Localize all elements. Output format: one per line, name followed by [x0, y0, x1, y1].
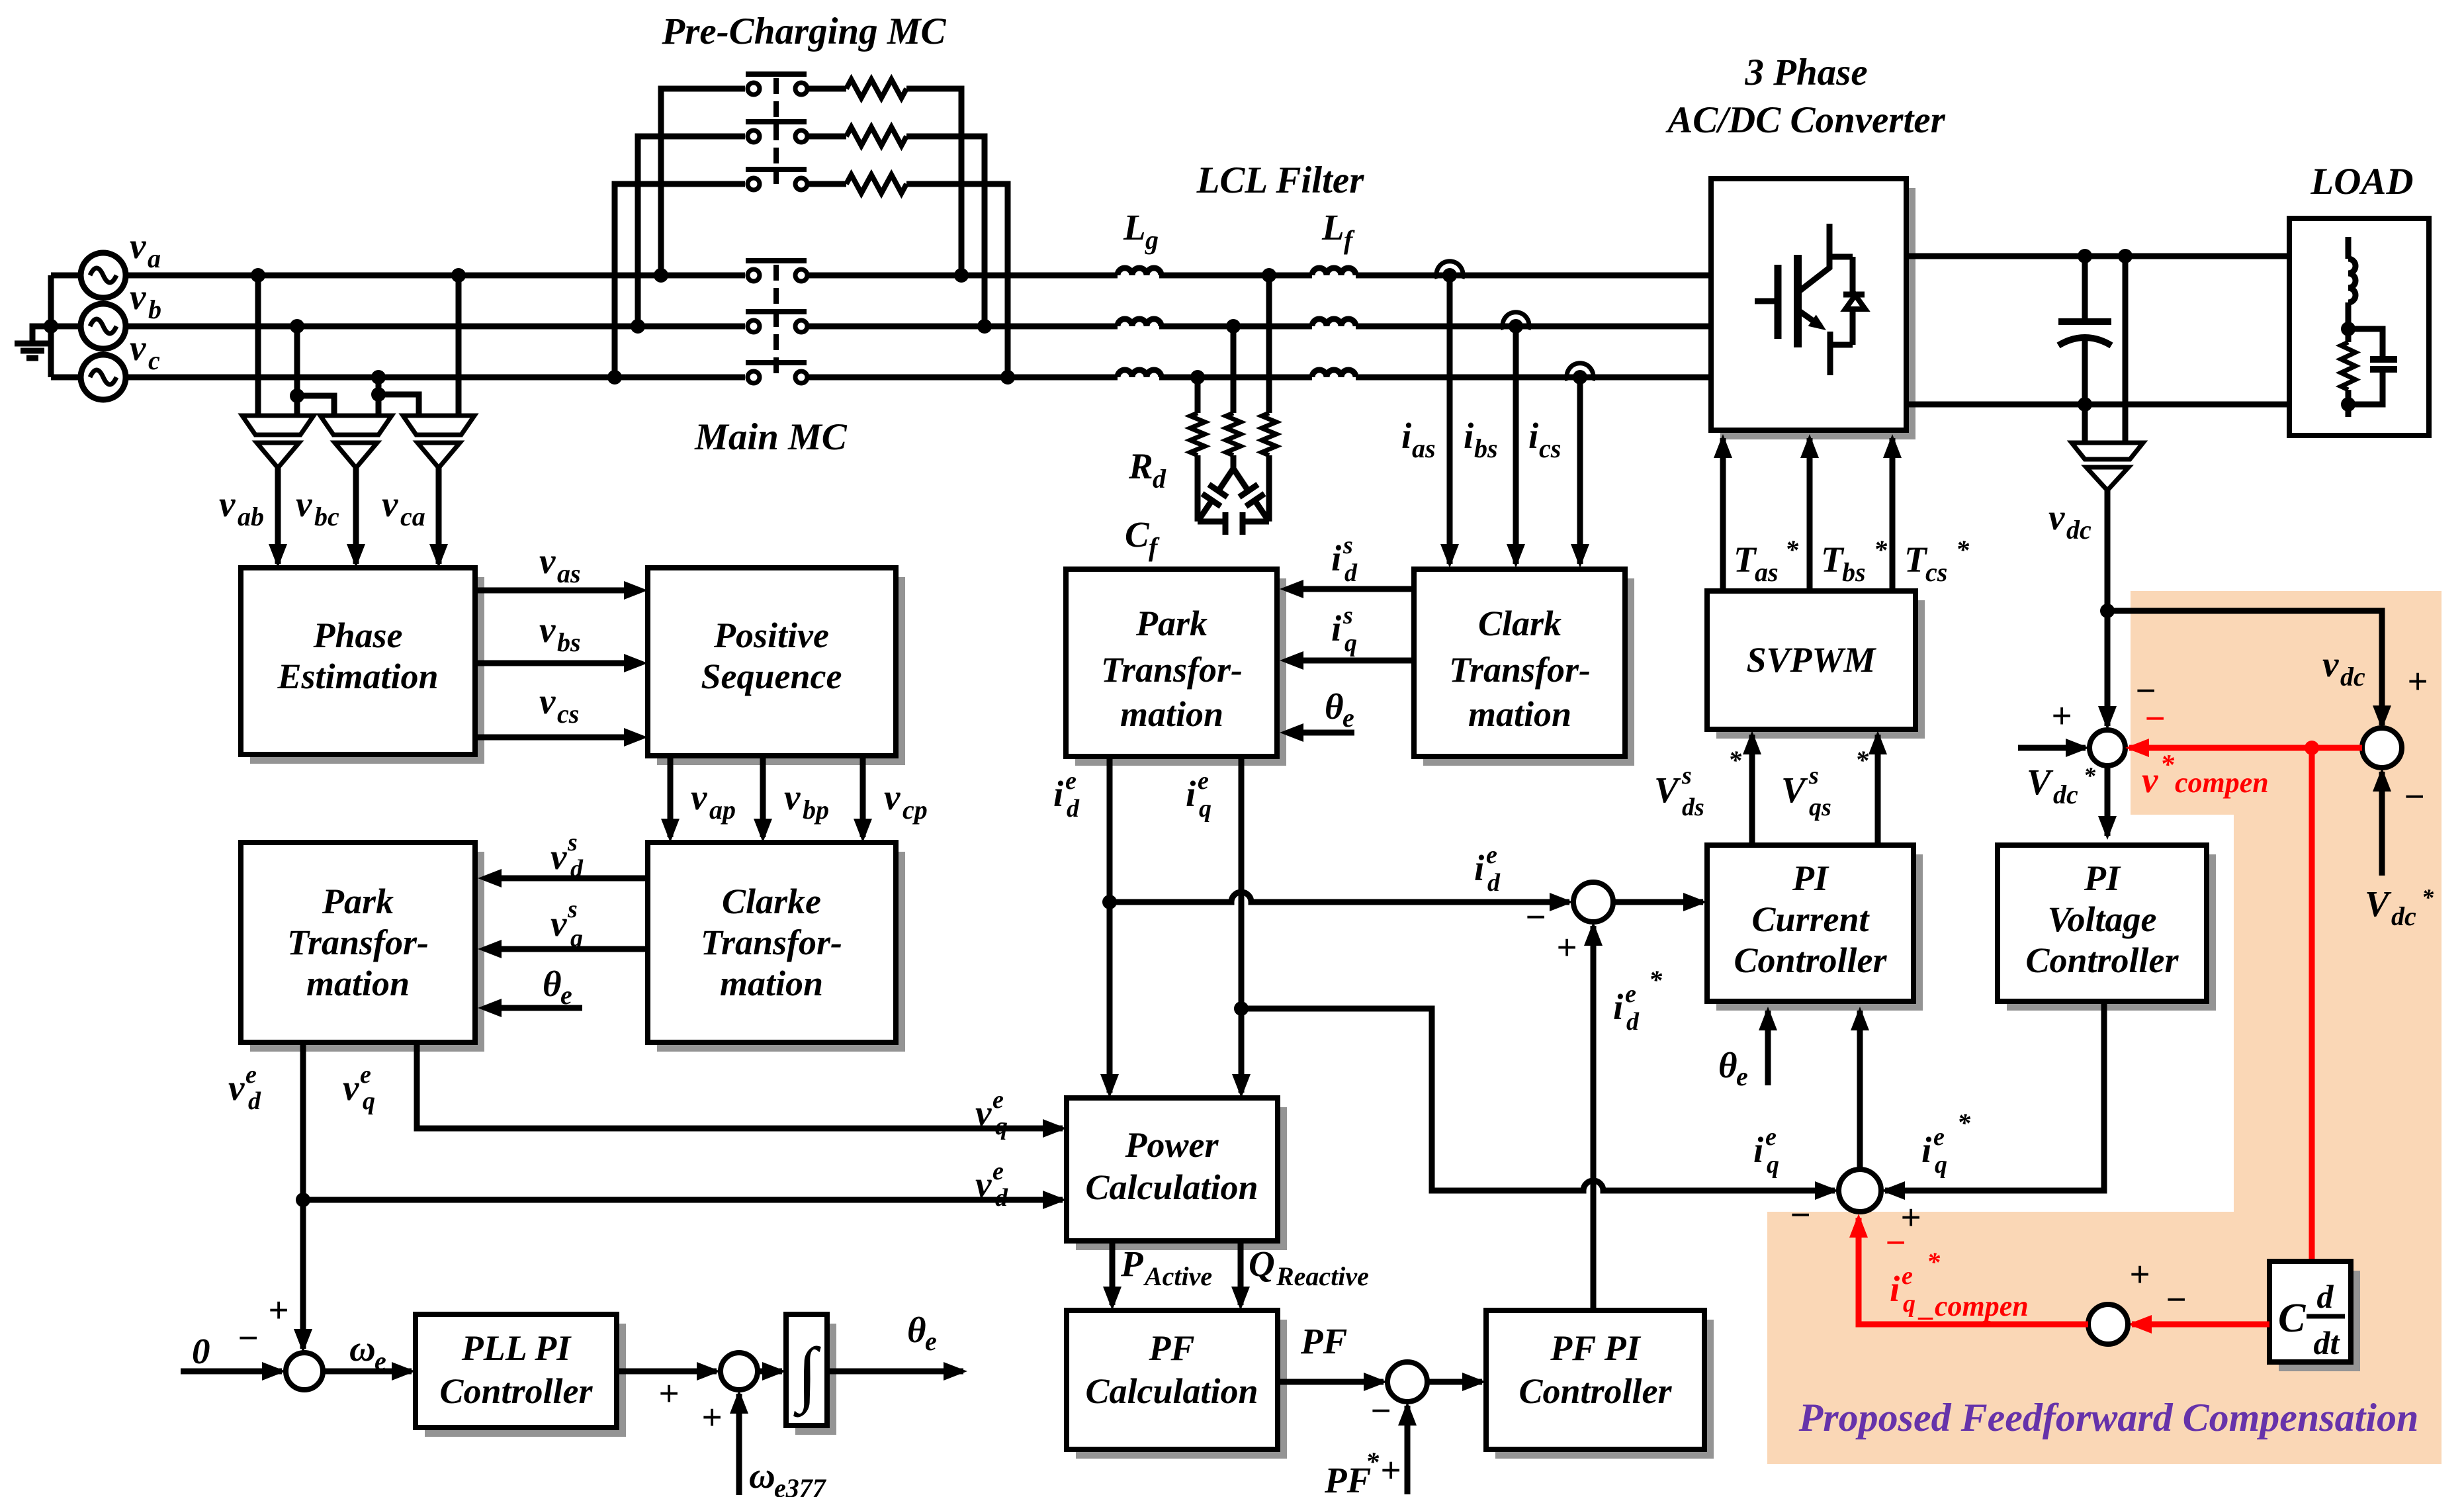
svg-text:v: v [884, 777, 901, 817]
svg-text:v: v [2142, 760, 2158, 800]
svg-text:Controller: Controller [1518, 1371, 1672, 1411]
wire ied ref from PF PI [1591, 926, 1597, 1310]
node: vc sense tap [371, 370, 386, 385]
svg-text:as: as [557, 559, 581, 588]
svg-text:θ: θ [543, 964, 562, 1004]
svg-text:i: i [1528, 416, 1539, 456]
svg-text:*: * [1728, 745, 1742, 775]
pre-charge contactor row 3 [615, 184, 745, 377]
svg-text:v: v [691, 777, 707, 817]
wire d sum to PI current [1613, 899, 1703, 905]
resistor Rd phase a [1266, 275, 1272, 413]
wire PLL PI to sum2 [617, 1369, 717, 1375]
svg-text:Main MC: Main MC [694, 416, 848, 458]
svg-text:−: − [1524, 897, 1546, 937]
AC source vb [81, 304, 126, 349]
svg-text:q: q [1344, 629, 1357, 657]
block PF Calculation [1076, 1320, 1287, 1459]
svg-text:as: as [1755, 557, 1779, 587]
load resistor [2346, 329, 2352, 342]
wire vdc to right sum [2107, 611, 2382, 725]
svg-text:+: + [1556, 927, 1577, 968]
svg-text:dc: dc [2066, 515, 2091, 545]
wire q sum to PI current [1857, 1011, 1863, 1169]
wire ied vertical [1107, 756, 1113, 1093]
svg-text:d: d [2317, 1278, 2334, 1315]
wire va to sensor1 [255, 275, 261, 416]
svg-text:i: i [1753, 1130, 1764, 1170]
voltage sensor vca [403, 416, 474, 435]
pre-charge contactor row 2 [638, 136, 745, 326]
svg-text:bs: bs [1842, 557, 1866, 587]
current sensor ibs [1503, 312, 1529, 330]
current sensor ias [1436, 261, 1463, 279]
AC source va [81, 253, 126, 298]
svg-text:θ: θ [1325, 686, 1344, 727]
svg-text:a: a [148, 244, 161, 273]
svg-text:V: V [2027, 762, 2054, 802]
block Park Transformation middle [1075, 578, 1286, 766]
svg-text:bc: bc [314, 502, 339, 531]
svg-text:bp: bp [803, 795, 829, 825]
LOAD box [2289, 218, 2429, 435]
svg-text:as: as [1412, 433, 1436, 463]
svg-text:d: d [995, 1184, 1008, 1212]
wire ieq to summing junction [1241, 1009, 1835, 1191]
wire P active [1110, 1241, 1116, 1305]
svg-text:v: v [784, 777, 801, 817]
node ieq branch [1234, 1001, 1249, 1016]
node red branch [2305, 741, 2319, 755]
svg-text:e: e [992, 1086, 1004, 1114]
svg-text:−: − [237, 1318, 259, 1358]
svg-text:e: e [1902, 1262, 1913, 1290]
svg-text:T: T [1821, 539, 1845, 580]
svg-text:Phase: Phase [313, 615, 403, 655]
svg-text:v: v [228, 1067, 245, 1108]
svg-text:*: * [1874, 535, 1888, 565]
svg-text:s: s [1342, 531, 1353, 559]
svg-text:LCL Filter: LCL Filter [1196, 159, 1365, 201]
summing junction compen [2088, 1304, 2128, 1344]
node: Rd tap phase a [1262, 268, 1276, 283]
main contactor [748, 371, 760, 383]
svg-text:AC/DC Converter: AC/DC Converter [1665, 99, 1945, 141]
block PLL PI Controller [425, 1324, 626, 1437]
svg-text:s: s [567, 829, 578, 856]
svg-text:Controller: Controller [439, 1371, 593, 1411]
inductor Lf phase c [1312, 370, 1356, 377]
block Park Transformation left [250, 852, 484, 1052]
pre-charge contactor dashed link [773, 78, 779, 184]
svg-text:PLL PI: PLL PI [461, 1328, 572, 1368]
summing junction vdc left [2090, 730, 2125, 766]
svg-text:LOAD: LOAD [2310, 161, 2413, 203]
svg-text:PF: PF [1300, 1321, 1347, 1361]
svg-text:compen: compen [2175, 766, 2269, 799]
svg-text:Estimation: Estimation [277, 657, 438, 696]
wire vca to Phase Estimation [436, 468, 442, 564]
svg-text:q: q [995, 1112, 1008, 1140]
svg-text:v: v [296, 484, 312, 524]
svg-text:e: e [1486, 841, 1497, 869]
svg-text:θ: θ [907, 1310, 926, 1350]
svg-text:+: + [2051, 696, 2072, 736]
svg-text:q: q [570, 925, 583, 952]
wire: source left bus [48, 275, 54, 377]
wire red down to C d/dt [2309, 748, 2315, 1261]
wire vdc down [2105, 490, 2111, 726]
wire vdc sum to PI voltage [2105, 766, 2111, 836]
svg-text:SVPWM: SVPWM [1746, 640, 1876, 680]
svg-text:q: q [1903, 1290, 1915, 1318]
wire vab to Phase Estimation [275, 468, 281, 564]
svg-text:L: L [1321, 207, 1344, 248]
wire PF [1278, 1379, 1384, 1385]
node ied branch [1102, 895, 1117, 909]
wire DC sense branches [2123, 256, 2129, 443]
svg-text:i: i [1890, 1269, 1900, 1309]
svg-text:Controller: Controller [2025, 940, 2179, 980]
wire we377 [736, 1394, 742, 1495]
svg-text:L: L [1123, 207, 1146, 248]
svg-text:e: e [1736, 1062, 1748, 1091]
node load R bottom [2341, 397, 2355, 412]
wire isd [1302, 586, 1414, 592]
svg-text:*: * [2084, 762, 2096, 789]
svg-text:e: e [1625, 980, 1636, 1008]
svg-text:ap: ap [709, 795, 736, 825]
inductor Lg phase a [1118, 268, 1161, 275]
svg-text:Transfor-: Transfor- [287, 923, 429, 962]
svg-text:ds: ds [1682, 794, 1704, 821]
svg-text:dc: dc [2053, 780, 2078, 809]
svg-text:*: * [1957, 1108, 1971, 1138]
svg-text:v: v [130, 226, 146, 266]
node DC+ sense [2118, 249, 2133, 263]
svg-text:ab: ab [238, 502, 264, 531]
svg-text:i: i [1464, 416, 1474, 456]
IGBT Q1 with diode [1755, 298, 1778, 304]
svg-text:+: + [268, 1290, 288, 1330]
svg-text:Calculation: Calculation [1085, 1371, 1258, 1411]
wire DC- rail [1906, 402, 2289, 408]
svg-text:v: v [343, 1067, 359, 1108]
svg-text:Sequence: Sequence [701, 657, 842, 696]
svg-text:Transfor-: Transfor- [701, 923, 842, 962]
inductor Lg phase b [1118, 319, 1161, 326]
summing junction PLL 2 [721, 1353, 758, 1390]
svg-text:Park: Park [322, 882, 394, 921]
wire vbs [475, 660, 625, 666]
wire zero input [181, 1369, 282, 1375]
svg-text:+: + [2129, 1254, 2150, 1294]
svg-text:d: d [1487, 869, 1501, 897]
svg-text:q: q [1935, 1151, 1947, 1179]
summing junction d-axis [1573, 882, 1613, 922]
svg-text:ω: ω [749, 1455, 775, 1496]
svg-text:e: e [1065, 767, 1077, 795]
wire Q reactive [1238, 1241, 1244, 1305]
wire we to PLL PI [323, 1369, 412, 1375]
svg-text:i: i [1474, 848, 1485, 888]
wire vbp [760, 756, 766, 837]
svg-text:cs: cs [1539, 433, 1561, 463]
wire ied to summing junction [1110, 892, 1569, 902]
svg-text:v: v [539, 541, 556, 581]
svg-text:−: − [2165, 1279, 2187, 1320]
wire DC+ rail [1906, 253, 2289, 259]
svg-text:i: i [1401, 416, 1412, 456]
svg-text:v: v [550, 837, 567, 877]
wire vc to sensor2 and sensor3 [376, 377, 382, 416]
svg-text:q: q [1199, 795, 1211, 823]
svg-text:e377: e377 [774, 1473, 827, 1497]
wire ieq ref from PI voltage [1885, 1001, 2104, 1191]
block Clark Transformation [1423, 578, 1634, 766]
svg-text:Controller: Controller [1734, 940, 1887, 980]
svg-text:Park: Park [1135, 604, 1208, 643]
pre-charge resistor row 2 [809, 134, 846, 140]
svg-text:e: e [1342, 703, 1354, 733]
svg-text:bs: bs [557, 627, 581, 657]
svg-text:f: f [1149, 532, 1160, 562]
summing junction PLL [286, 1353, 323, 1390]
svg-text:V: V [1654, 770, 1681, 810]
svg-text:v: v [2048, 497, 2065, 537]
block PI Current Controller [1716, 854, 1923, 1011]
svg-text:T: T [1734, 539, 1757, 580]
wire red compen to q sum [1859, 1218, 2088, 1324]
svg-text:PF: PF [1324, 1460, 1371, 1497]
svg-text:d: d [1626, 1008, 1640, 1036]
wire ias to Clark transformation [1447, 275, 1453, 564]
block C d/dt [2279, 1271, 2360, 1371]
wire ieq vertical [1239, 756, 1245, 1093]
block Clarke Transformation [657, 852, 905, 1052]
node DC+ cap [2078, 249, 2092, 263]
main contactor dashed link [773, 265, 779, 377]
svg-text:PF PI: PF PI [1550, 1328, 1642, 1368]
svg-text:bs: bs [1474, 433, 1498, 463]
resistor Rd phase b [1231, 326, 1237, 413]
node: Rd tap phase b [1226, 319, 1241, 334]
svg-text:PI: PI [2084, 858, 2121, 898]
svg-text:i: i [1331, 538, 1342, 578]
wire sum2 to integrator [758, 1369, 782, 1375]
svg-text:_compen: _compen [1917, 1290, 2029, 1322]
wire Vdc ref left [2018, 745, 2086, 751]
svg-text:dt: dt [2314, 1324, 2341, 1361]
load capacitor [2348, 329, 2383, 359]
svg-text:cs: cs [557, 699, 579, 729]
svg-text:*: * [1649, 965, 1663, 995]
svg-text:−: − [2403, 776, 2425, 817]
wire Vds to SVPWM [1749, 735, 1755, 845]
svg-text:Clark: Clark [1478, 604, 1562, 643]
svg-text:Transfor-: Transfor- [1101, 650, 1243, 690]
block SVPWM [1716, 600, 1925, 739]
svg-text:v: v [382, 484, 398, 524]
block Phase Estimation [250, 577, 484, 764]
AC source vc [81, 355, 126, 400]
node ved branch [296, 1193, 310, 1207]
summing junction vdc right [2362, 728, 2402, 768]
pre-charge contactor row 1 [661, 89, 745, 275]
svg-text:−: − [1789, 1195, 1811, 1235]
node: Rd tap phase c [1190, 370, 1205, 385]
svg-text:e: e [1198, 767, 1209, 795]
svg-text:s: s [567, 895, 578, 923]
svg-text:v: v [975, 1093, 992, 1133]
inductor Lg phase c [1118, 370, 1161, 377]
svg-text:*: * [1366, 1447, 1380, 1476]
svg-text:e: e [245, 1061, 257, 1089]
wire ics to Clark transformation [1577, 377, 1583, 564]
svg-text:Power: Power [1125, 1125, 1219, 1165]
svg-text:e: e [1933, 1123, 1945, 1151]
svg-text:f: f [1344, 225, 1355, 255]
svg-text:g: g [1145, 225, 1159, 255]
node vdc branch [2100, 604, 2115, 618]
svg-text:q: q [1767, 1151, 1779, 1179]
load inductor [2346, 237, 2352, 259]
svg-text:v: v [130, 328, 146, 368]
node load R top [2341, 322, 2355, 336]
pre-charge resistor row 3 [809, 181, 846, 187]
node: va sense tap 1 [251, 268, 265, 283]
wire ved to PLL [294, 1329, 312, 1353]
svg-text:Reactive: Reactive [1276, 1261, 1369, 1291]
svg-text:d: d [1067, 795, 1080, 823]
inductor Lf phase a [1312, 268, 1356, 275]
svg-text:*: * [1855, 745, 1869, 775]
svg-text:e: e [360, 1061, 371, 1089]
svg-text:C: C [1125, 514, 1150, 555]
svg-text:C: C [2278, 1296, 2306, 1341]
svg-text:θ: θ [1718, 1045, 1738, 1085]
main contactor [748, 269, 760, 281]
svg-text:Transfor-: Transfor- [1449, 650, 1591, 690]
svg-text:Pre-Charging MC: Pre-Charging MC [661, 11, 946, 52]
capacitor DC link [2082, 256, 2088, 322]
wire vbc to Phase Estimation [353, 468, 359, 564]
resistor Rd phase c [1195, 377, 1201, 413]
svg-text:e: e [992, 1157, 1004, 1185]
summing junction q-axis [1839, 1169, 1881, 1212]
wire Tas [1720, 438, 1726, 591]
svg-text:v: v [975, 1164, 992, 1204]
svg-text:Voltage: Voltage [2047, 899, 2156, 939]
wire PF sum to PF PI [1427, 1379, 1482, 1385]
wire C d/dt to red sum [2132, 1322, 2269, 1328]
wire va to sensor3 [456, 275, 462, 416]
svg-text:+: + [1380, 1450, 1401, 1490]
wire red compen to left sum [2129, 745, 2362, 751]
capacitor Cf delta [1219, 469, 1233, 490]
svg-text:−: − [1370, 1390, 1391, 1431]
wire Tcs [1890, 438, 1896, 591]
svg-text:*: * [1785, 535, 1799, 565]
svg-text:+: + [658, 1373, 679, 1414]
wire PF ref [1405, 1406, 1411, 1494]
svg-text:PF: PF [1148, 1328, 1194, 1368]
voltage sensor vdc [2072, 443, 2143, 459]
wire Tbs [1807, 438, 1813, 591]
wire Vdc ref up [2379, 772, 2385, 876]
svg-text:q: q [363, 1087, 375, 1115]
wire vcs [475, 735, 625, 741]
pre-charge resistor row 1 [809, 86, 846, 92]
block Power Calculation [1076, 1107, 1287, 1250]
voltage sensor vab [242, 416, 314, 435]
svg-text:ω: ω [349, 1328, 376, 1369]
svg-text:v: v [539, 681, 556, 721]
svg-text:i: i [1613, 987, 1624, 1027]
svg-text:+: + [2407, 661, 2428, 702]
svg-text:mation: mation [1468, 694, 1571, 734]
svg-text:R: R [1128, 446, 1153, 486]
main contactor [748, 320, 760, 332]
svg-text:T: T [1904, 539, 1928, 580]
svg-text:Proposed Feedforward Compensat: Proposed Feedforward Compensation [1798, 1396, 2419, 1439]
svg-text:b: b [148, 295, 161, 324]
svg-text:PI: PI [1792, 858, 1829, 898]
node: vb sense tap [290, 319, 304, 334]
wire vsd [500, 876, 648, 882]
svg-text:Active: Active [1143, 1261, 1212, 1291]
svg-text:s: s [1808, 762, 1819, 790]
svg-text:i: i [1921, 1130, 1932, 1170]
svg-text:i: i [1186, 774, 1196, 814]
svg-text:e: e [560, 980, 572, 1010]
svg-text:e: e [925, 1326, 937, 1356]
summing junction PF [1387, 1362, 1427, 1402]
svg-text:+: + [701, 1397, 722, 1437]
wire ved to power calc [300, 1042, 306, 1349]
voltage sensor vbc [320, 416, 392, 435]
wire theta-e to Park left [500, 1005, 582, 1011]
wire vas [475, 588, 625, 594]
wire: phase c bus [126, 375, 745, 381]
svg-text:cp: cp [902, 795, 928, 825]
svg-text:3 Phase: 3 Phase [1744, 52, 1867, 93]
svg-text:dc: dc [2340, 662, 2365, 692]
wire theta-e to Park middle [1302, 730, 1354, 736]
svg-text:i: i [1053, 774, 1064, 814]
svg-text:c: c [148, 345, 160, 375]
wire ibs to Clark transformation [1513, 326, 1519, 564]
orange highlight region: proposed feedforward compensation zone [1767, 591, 2442, 1464]
wire: phase b bus [126, 324, 745, 330]
wire theta-e out [827, 1369, 963, 1375]
svg-text:d: d [248, 1087, 261, 1115]
svg-text:Current: Current [1751, 899, 1870, 939]
svg-text:qs: qs [1809, 794, 1831, 821]
wire: phase a bus [126, 273, 745, 279]
svg-text:v: v [539, 610, 556, 650]
wire vb to sensor1 and sensor2 [294, 326, 300, 416]
block Positive Sequence [657, 577, 905, 765]
svg-text:V: V [1781, 770, 1808, 810]
wire veq to power calc [417, 1042, 1063, 1128]
svg-text:e: e [374, 1346, 386, 1376]
node DC- cap [2078, 397, 2092, 412]
svg-text:v: v [2322, 644, 2339, 684]
block PI Voltage Controller [2007, 854, 2216, 1011]
svg-text:0: 0 [192, 1331, 210, 1371]
svg-text:*: * [1927, 1247, 1941, 1277]
